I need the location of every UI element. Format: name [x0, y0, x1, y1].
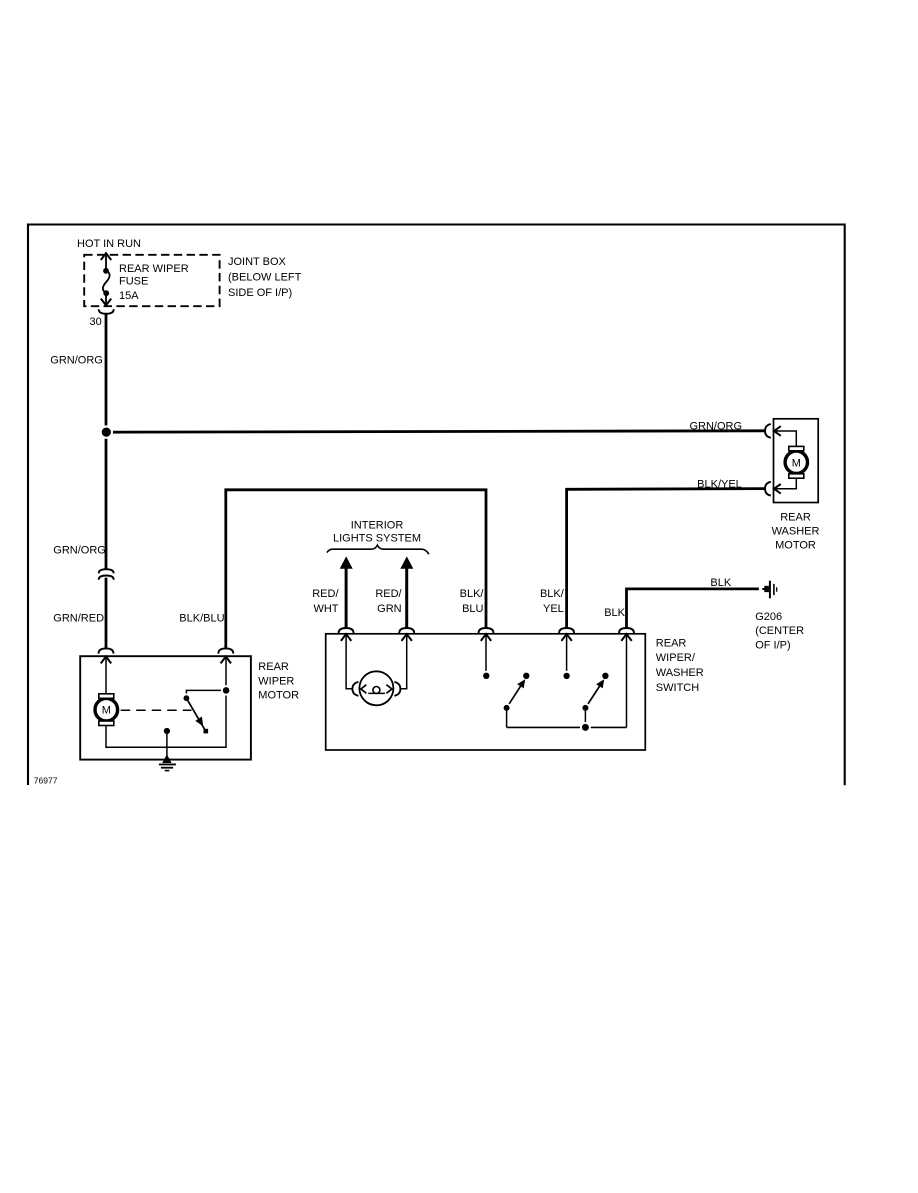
svg-text:(BELOW LEFT: (BELOW LEFT — [228, 271, 302, 283]
svg-text:76977: 76977 — [34, 776, 58, 786]
wire BLK inside switch — [626, 636, 628, 728]
svg-text:HOT IN RUN: HOT IN RUN — [77, 238, 141, 250]
wire BLK/BLU from rear wiper motor to switch — [226, 490, 486, 649]
wires inside washer motor — [775, 431, 797, 446]
svg-text:M: M — [102, 705, 111, 717]
illumination bulb — [359, 671, 393, 705]
connector at GRN/RED entry — [99, 648, 114, 653]
arrow to interior lights (RED/WHT) — [340, 556, 353, 568]
svg-text:YEL: YEL — [543, 603, 564, 615]
rear wiper/washer switch box — [326, 634, 646, 750]
switch 1 pivot — [502, 703, 512, 713]
switch 2 top contact — [600, 671, 610, 681]
svg-text:M: M — [792, 457, 801, 469]
svg-text:G206: G206 — [755, 611, 782, 623]
svg-text:WASHER: WASHER — [772, 526, 820, 538]
svg-text:GRN/RED: GRN/RED — [53, 613, 104, 625]
svg-text:LIGHTS SYSTEM: LIGHTS SYSTEM — [333, 533, 421, 545]
wire RED/WHT — [345, 568, 348, 628]
svg-text:MOTOR: MOTOR — [775, 540, 816, 552]
svg-text:MOTOR: MOTOR — [258, 689, 299, 701]
wire inside wiper motor: motor bottom to bus — [106, 657, 226, 747]
connector at BLK/BLU entry — [218, 648, 233, 653]
svg-text:BLK: BLK — [604, 607, 625, 619]
ground wire — [166, 731, 168, 758]
connector at RED/GRN entry — [399, 628, 414, 633]
svg-text:GRN: GRN — [377, 603, 402, 615]
svg-text:OF I/P): OF I/P) — [755, 639, 790, 651]
rear washer motor box — [774, 419, 819, 503]
wire GRN/ORG vertical from fuse — [105, 314, 108, 569]
connector at BLK/BLU entry — [479, 628, 494, 633]
switch 2 blade — [585, 683, 602, 708]
park switch blade — [186, 698, 204, 729]
motor M (rear washer) — [785, 451, 807, 473]
rear wiper motor box — [80, 656, 251, 759]
wire inside wiper motor: left lead — [105, 657, 107, 694]
svg-text:BLU: BLU — [462, 603, 483, 615]
svg-text:FUSE: FUSE — [119, 276, 148, 288]
svg-text:BLK/: BLK/ — [540, 588, 565, 600]
svg-text:REAR WIPER: REAR WIPER — [119, 263, 189, 275]
node on right lead — [221, 685, 231, 695]
svg-text:WIPER: WIPER — [258, 675, 294, 687]
svg-text:REAR: REAR — [656, 637, 687, 649]
svg-text:RED/: RED/ — [312, 588, 339, 600]
wire BLK/YEL inside switch — [566, 636, 568, 672]
wire BLK/YEL from switch to washer motor — [567, 489, 765, 628]
motor M (rear wiper) — [95, 698, 118, 721]
bus wire in switch — [507, 726, 627, 728]
connector at BLK/YEL entry — [559, 628, 574, 633]
wire to bulb (RED/WHT side) — [346, 636, 353, 689]
connector at BLK entry — [619, 628, 634, 633]
node BLK/BLU contact — [481, 671, 491, 681]
ground G206 — [762, 586, 769, 592]
svg-text:WASHER: WASHER — [656, 667, 704, 679]
in-line connector C — [99, 569, 114, 580]
dashed linkage motor to park switch — [121, 709, 192, 711]
fuse REAR WIPER FUSE 15A — [101, 253, 111, 305]
svg-text:BLK/BLU: BLK/BLU — [179, 613, 224, 625]
svg-text:WHT: WHT — [313, 603, 338, 615]
switch 2 pivot wire — [584, 708, 586, 728]
svg-text:INTERIOR: INTERIOR — [351, 519, 404, 531]
joint box (dashed) — [84, 255, 219, 306]
svg-text:RED/: RED/ — [375, 588, 402, 600]
connector at washer GRN/ORG entry — [765, 424, 771, 438]
svg-text:15A: 15A — [119, 290, 139, 302]
wire RED/GRN — [405, 568, 408, 628]
svg-text:JOINT BOX: JOINT BOX — [228, 256, 287, 268]
ground contact node — [162, 726, 172, 736]
svg-text:GRN/ORG: GRN/ORG — [53, 544, 106, 556]
connector at RED/WHT entry — [339, 628, 354, 633]
wire GRN/ORG horizontal to rear washer motor — [106, 431, 765, 432]
svg-text:SIDE OF I/P): SIDE OF I/P) — [228, 287, 292, 299]
svg-text:(CENTER: (CENTER — [755, 625, 804, 637]
arrow to interior lights (RED/GRN) — [400, 556, 413, 568]
wire BLK/BLU inside switch — [485, 636, 487, 672]
park switch link wire — [186, 690, 226, 697]
wire GRN/RED to rear wiper motor — [105, 578, 108, 649]
svg-text:REAR: REAR — [780, 511, 811, 523]
switch 2 pivot — [581, 703, 591, 713]
junction node — [100, 425, 113, 438]
svg-text:GRN/ORG: GRN/ORG — [50, 354, 103, 366]
svg-text:BLK: BLK — [710, 577, 731, 589]
ground (rear wiper motor) — [162, 754, 171, 763]
switch 1 pivot wire — [506, 708, 508, 728]
switch 1 top contact — [521, 671, 531, 681]
svg-text:SWITCH: SWITCH — [656, 682, 699, 694]
wire BLK to G206 — [627, 589, 759, 628]
switch 1 blade — [507, 683, 523, 708]
node BLK/YEL contact — [562, 671, 572, 681]
wire to bulb (RED/GRN side) — [400, 636, 407, 689]
svg-text:BLK/YEL: BLK/YEL — [697, 479, 742, 491]
connector at washer BLK/YEL entry — [765, 482, 771, 496]
bus junction node — [580, 722, 591, 733]
svg-text:30: 30 — [90, 316, 102, 328]
brace interior lights — [327, 545, 429, 554]
svg-text:REAR: REAR — [258, 661, 289, 673]
svg-text:BLK/: BLK/ — [460, 588, 485, 600]
svg-text:WIPER/: WIPER/ — [656, 652, 696, 664]
park switch pivot — [182, 693, 192, 703]
svg-text:GRN/ORG: GRN/ORG — [689, 421, 742, 433]
connector 30 (female cup) — [99, 309, 114, 314]
